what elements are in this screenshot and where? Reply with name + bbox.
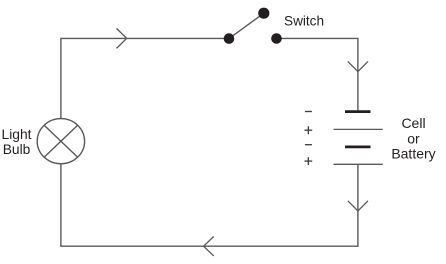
switch S1	[224, 8, 282, 44]
battery BT1 (two cells)	[334, 112, 383, 165]
wire arrow down (upper right)	[348, 61, 368, 71]
wire arrow left (bottom)	[204, 237, 214, 256]
svg-text:Battery: Battery	[391, 145, 435, 161]
svg-text:Switch: Switch	[284, 14, 324, 29]
lamp L1 (light bulb)	[37, 119, 84, 164]
wire top-left segment	[61, 38, 229, 118]
wire top-right segment	[277, 38, 358, 110]
svg-text:Bulb: Bulb	[3, 142, 31, 157]
battery polarity marks	[305, 112, 313, 166]
svg-text:Cell: Cell	[401, 115, 425, 131]
wire arrow down (lower right)	[348, 201, 368, 211]
svg-text:Light: Light	[2, 127, 32, 142]
wire arrow right (top)	[117, 28, 127, 48]
svg-text:or: or	[407, 131, 420, 147]
wire bottom-right segment	[61, 164, 358, 246]
